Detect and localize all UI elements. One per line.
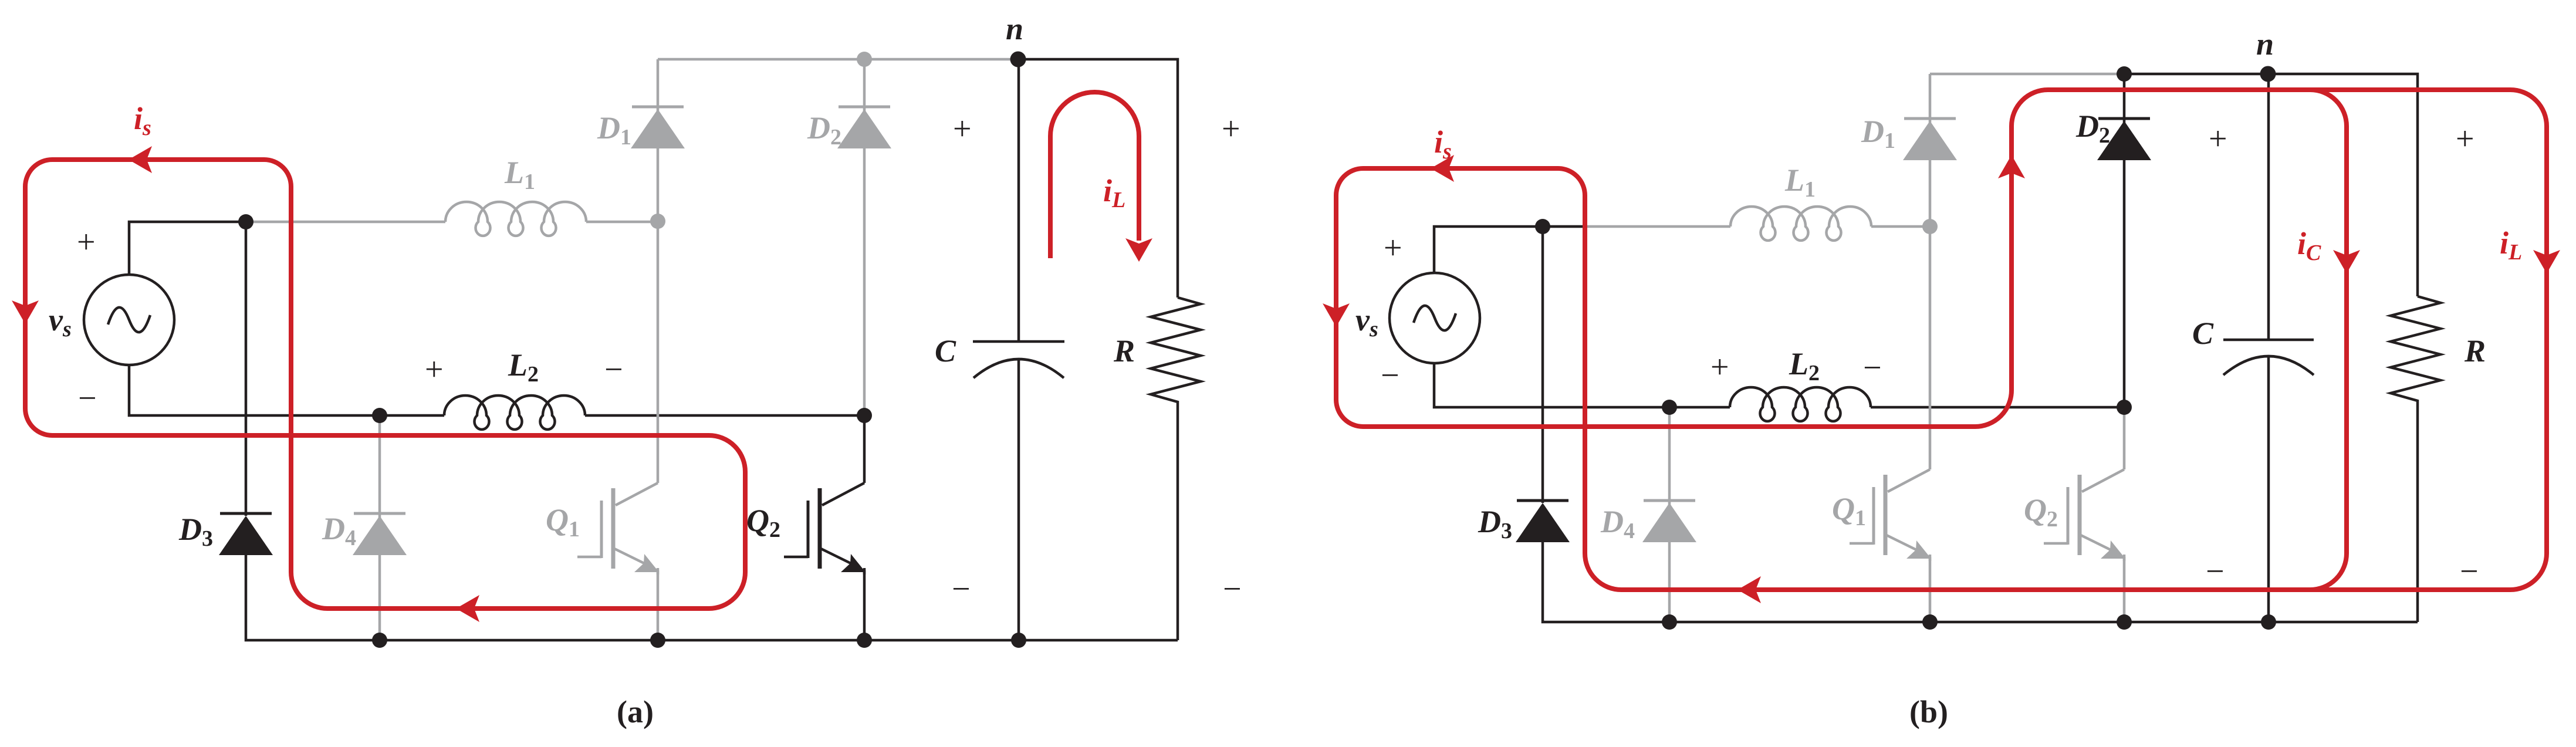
svg-text:L2: L2: [1789, 346, 1820, 386]
svg-text:vs: vs: [49, 302, 72, 342]
svg-text:+: +: [1222, 111, 1240, 147]
svg-text:+: +: [1384, 230, 1402, 266]
svg-text:iC: iC: [2297, 226, 2321, 265]
svg-text:n: n: [2256, 26, 2274, 62]
svg-text:+: +: [2209, 121, 2227, 157]
svg-text:−: −: [1381, 357, 1399, 394]
svg-text:D2: D2: [2075, 109, 2110, 148]
svg-text:R: R: [1113, 333, 1135, 369]
svg-text:−: −: [2206, 553, 2225, 590]
svg-text:D1: D1: [597, 110, 631, 150]
svg-text:−: −: [952, 571, 971, 607]
svg-text:R: R: [2464, 333, 2486, 369]
svg-text:(b): (b): [1909, 694, 1948, 729]
svg-text:L2: L2: [508, 347, 539, 387]
svg-text:−: −: [1863, 350, 1882, 386]
svg-text:L1: L1: [504, 155, 535, 194]
svg-text:L1: L1: [1784, 163, 1816, 202]
svg-text:n: n: [1006, 11, 1023, 46]
svg-text:iL: iL: [2500, 225, 2522, 265]
svg-text:+: +: [77, 224, 96, 261]
svg-text:−: −: [78, 380, 97, 417]
svg-text:iL: iL: [1103, 173, 1125, 212]
svg-text:D1: D1: [1861, 114, 1895, 153]
svg-text:Q1: Q1: [546, 502, 580, 542]
svg-text:D4: D4: [1600, 504, 1635, 543]
svg-text:D2: D2: [807, 110, 841, 150]
svg-text:Q2: Q2: [2024, 492, 2058, 532]
svg-text:C: C: [2192, 316, 2214, 351]
svg-text:−: −: [604, 351, 623, 388]
svg-text:+: +: [1710, 349, 1729, 386]
svg-text:Q2: Q2: [746, 503, 780, 542]
svg-text:is: is: [1434, 124, 1452, 164]
svg-text:+: +: [953, 111, 972, 147]
svg-text:−: −: [2460, 553, 2479, 590]
svg-text:−: −: [1223, 571, 1242, 607]
svg-text:C: C: [935, 333, 956, 369]
svg-text:D3: D3: [1478, 504, 1512, 543]
svg-text:is: is: [134, 101, 151, 140]
svg-text:(a): (a): [617, 694, 654, 729]
svg-text:D3: D3: [178, 512, 213, 551]
svg-text:+: +: [2456, 121, 2474, 157]
svg-text:vs: vs: [1355, 302, 1378, 342]
svg-text:+: +: [425, 351, 444, 388]
svg-text:D4: D4: [322, 511, 356, 550]
svg-text:Q1: Q1: [1832, 491, 1866, 530]
